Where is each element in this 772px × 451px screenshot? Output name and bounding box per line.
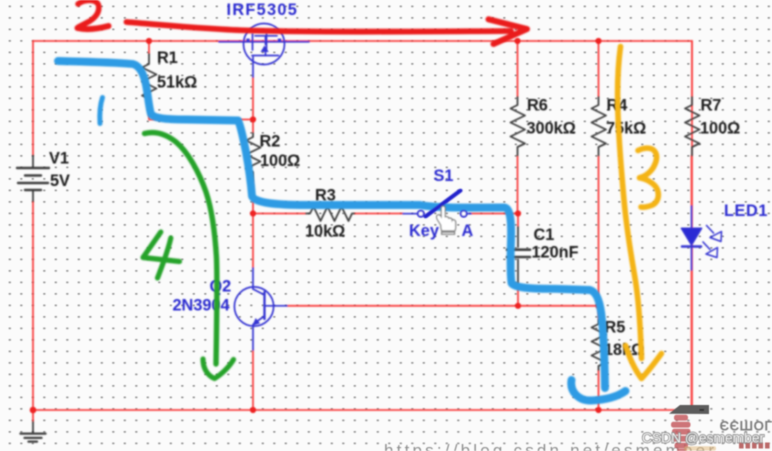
svg-text:R2: R2: [260, 133, 281, 151]
resistor R4: [592, 97, 607, 156]
node R6 top: [514, 38, 520, 44]
annotation orange arrowhead: [626, 346, 662, 379]
wire R1 top lead: [148, 41, 150, 54]
svg-text:IRF5305: IRF5305: [227, 1, 299, 19]
wire R3 left: [253, 213, 306, 215]
annotation green curve arrow: [145, 133, 217, 364]
wire R7 top lead: [691, 41, 693, 97]
svg-text:Q2: Q2: [210, 278, 232, 296]
svg-text:R7: R7: [701, 97, 722, 115]
wire R6 top lead: [517, 41, 519, 97]
wire LED to bottom: [691, 270, 693, 410]
battery V1: [17, 156, 49, 202]
resistor R2: [246, 133, 261, 181]
wire C1 bottom red: [517, 284, 519, 306]
wire left rail upper: [32, 41, 34, 156]
node S1/C1/R6: [515, 210, 521, 216]
blue symbol layer: [219, 24, 722, 351]
node R4 top: [595, 38, 601, 44]
wire R6 bottom to node: [517, 156, 519, 214]
svg-text:A: A: [462, 222, 474, 240]
wire R2 bottom to R3 node: [252, 181, 254, 214]
resistor R6: [511, 97, 526, 156]
svg-text:CSDN @esmember: CSDN @esmember: [642, 431, 765, 446]
node R5 bottom: [595, 407, 601, 413]
wire right rail: [691, 41, 693, 410]
svg-text:51kΩ: 51kΩ: [157, 74, 197, 92]
svg-text:75kΩ: 75kΩ: [606, 120, 646, 138]
ground: [21, 422, 46, 442]
svg-text:5V: 5V: [50, 172, 70, 190]
node ground: [30, 407, 37, 414]
wire Q2 base line: [287, 305, 599, 307]
resistor R3: [306, 207, 354, 222]
wire R5 bottom lead: [598, 370, 600, 410]
wire left rail lower: [32, 201, 34, 410]
wire C1 top red: [517, 214, 519, 228]
wire R2 top lead: [252, 120, 254, 134]
node R1/R2/drain: [250, 116, 256, 122]
wire Q2 emitter red: [252, 350, 254, 410]
wire ground stub: [32, 410, 34, 422]
wire R7 to LED: [691, 156, 693, 207]
node Q2 emitter bottom: [250, 407, 256, 413]
wire R3 to S1: [354, 213, 403, 215]
logo eeworld: [669, 405, 772, 451]
annotation red digit 2: [78, 0, 99, 27]
hand-drawn annotations: [58, 0, 662, 400]
annotation orange line 3: [618, 47, 642, 359]
wire R1 bottom to node: [149, 102, 253, 120]
node C1 bottom: [515, 303, 521, 309]
svg-text:R6: R6: [527, 97, 548, 115]
switch S1 lever overlay: [418, 191, 467, 217]
node R4 R5 base: [595, 303, 601, 309]
svg-text:10kΩ: 10kΩ: [305, 223, 345, 241]
wire S1 to C1 node: [471, 213, 518, 215]
annotation orange digit 3: [638, 148, 658, 207]
svg-text:Key: Key: [409, 222, 439, 240]
hand cursor over S1: [436, 206, 455, 234]
annotation blue digit 1: [100, 98, 103, 124]
wire R4 bottom: [598, 156, 600, 306]
capacitor C1: [507, 227, 530, 284]
transistor Q2 2N3904: [234, 268, 287, 350]
svg-text:V1: V1: [49, 150, 69, 168]
wire R5 top lead: [598, 306, 600, 320]
mosfet IRF5305: [219, 24, 309, 78]
svg-text:100Ω: 100Ω: [700, 120, 740, 138]
annotation green digit 4: [143, 232, 180, 262]
switch S1: [403, 191, 471, 217]
svg-text:100Ω: 100Ω: [260, 152, 300, 170]
annotation blue highlight net: [58, 61, 605, 388]
wire mosfet drain down: [252, 77, 254, 120]
wire bottom rail: [33, 409, 692, 411]
annotation red arrow stroke: [127, 22, 512, 32]
svg-text:2N3904: 2N3904: [173, 297, 230, 315]
annotation blue swoosh end: [571, 380, 625, 401]
wire node to Q2 collector: [252, 214, 254, 269]
annotation red arrowhead: [489, 19, 528, 44]
svg-text:300kΩ: 300kΩ: [527, 120, 576, 138]
svg-text:C1: C1: [534, 226, 555, 244]
node R2/R3: [250, 210, 256, 216]
svg-text:R5: R5: [605, 319, 626, 337]
svg-text:R1: R1: [157, 49, 178, 67]
svg-text:S1: S1: [434, 167, 454, 185]
resistor R5: [592, 320, 607, 370]
node R1 top: [146, 38, 152, 44]
resistor R7: [685, 97, 700, 156]
wire R4 top lead: [598, 41, 600, 97]
wire top rail: [33, 40, 692, 42]
svg-text:120nF: 120nF: [532, 244, 579, 262]
svg-text:LED1: LED1: [724, 202, 768, 220]
resistor R1: [142, 54, 157, 102]
LED1 diode: [682, 206, 722, 270]
